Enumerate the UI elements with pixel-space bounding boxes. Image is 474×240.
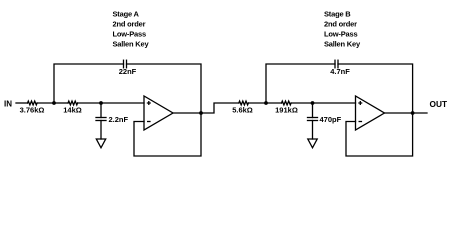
wire: node A up and right to C1: [54, 64, 124, 103]
svg-text:4.7nF: 4.7nF: [330, 67, 350, 76]
wire: stage A output step up to stage B input: [201, 103, 239, 113]
node A junction: [52, 101, 56, 105]
wire: node B down to C2: [100, 103, 102, 118]
svg-text:Stage A: Stage A: [113, 10, 140, 19]
text: Stage B header: [324, 10, 361, 49]
svg-text:14kΩ: 14kΩ: [63, 106, 82, 115]
wire: C1 right and down to output node O1: [127, 64, 202, 113]
ground (stage B): [308, 139, 317, 148]
resistor R3: [239, 101, 249, 105]
op-amp U2: [356, 96, 385, 130]
wire: U2 inverting input feedback loop: [346, 113, 413, 156]
text: Stage A header: [113, 10, 150, 49]
svg-text:5.6kΩ: 5.6kΩ: [232, 106, 253, 115]
resistor R4: [282, 101, 292, 105]
wire: C4 to ground: [312, 121, 314, 140]
svg-text:IN: IN: [4, 100, 12, 109]
capacitor C2 2.2nF: [96, 118, 106, 121]
node O1 junction: [199, 111, 203, 115]
resistor R1: [28, 101, 38, 105]
wire: U2 output to node O2 and out: [385, 112, 428, 114]
wire: node A to R2: [54, 102, 68, 104]
resistor R2: [68, 101, 78, 105]
wire: node C up and right to C3: [266, 64, 335, 103]
capacitor C3 4.7nF: [335, 60, 338, 68]
wire: R3 to node C: [248, 102, 266, 104]
svg-text:2nd order: 2nd order: [113, 20, 146, 29]
wire: C3 right and down to output node O2: [338, 64, 413, 113]
ground (stage A): [96, 139, 105, 148]
node O2 junction: [411, 111, 415, 115]
svg-text:Sallen Key: Sallen Key: [113, 40, 150, 49]
svg-text:Sallen Key: Sallen Key: [324, 40, 361, 49]
wire: node C to R4: [266, 102, 282, 104]
svg-text:191kΩ: 191kΩ: [275, 106, 298, 115]
svg-text:Stage B: Stage B: [324, 10, 351, 19]
svg-text:OUT: OUT: [430, 99, 448, 109]
svg-text:Low-Pass: Low-Pass: [113, 30, 146, 39]
svg-text:Low-Pass: Low-Pass: [324, 30, 357, 39]
svg-text:2.2nF: 2.2nF: [109, 115, 129, 124]
wire: IN to R1: [16, 102, 28, 104]
capacitor C4 470pF: [308, 118, 318, 121]
wire: R4 to node D: [291, 102, 312, 104]
wire: U1 inverting input feedback loop: [134, 113, 201, 156]
op-amp U1: [144, 96, 173, 130]
svg-text:2nd order: 2nd order: [324, 20, 357, 29]
node C junction: [264, 101, 268, 105]
wire: node D to op-amp U2 non-inverting input: [313, 102, 356, 104]
node D junction: [311, 101, 315, 105]
svg-text:470pF: 470pF: [320, 115, 342, 124]
wire: C2 to ground: [100, 121, 102, 140]
svg-text:3.76kΩ: 3.76kΩ: [20, 106, 45, 115]
capacitor C1 22nF: [124, 60, 127, 68]
node B junction: [99, 101, 103, 105]
svg-text:22nF: 22nF: [119, 67, 137, 76]
wire: node B to op-amp U1 non-inverting input: [101, 102, 144, 104]
wire: R1 to node A: [37, 102, 54, 104]
wire: U1 output to node O1: [173, 112, 201, 114]
wire: node D down to C4: [312, 103, 314, 118]
wire: R2 to node B: [78, 102, 101, 104]
